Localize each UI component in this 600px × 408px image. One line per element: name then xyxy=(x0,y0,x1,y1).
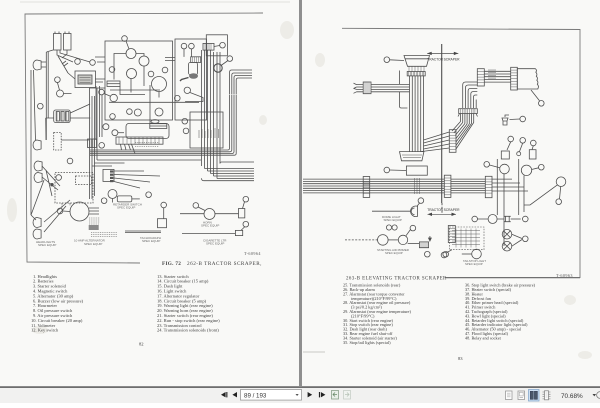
callout 26 xyxy=(384,167,406,173)
svg-text:35. Stop/tail lights (special: 35. Stop/tail lights (special) xyxy=(343,340,391,345)
riser wires to stub wires xyxy=(230,70,252,95)
svg-text:T-60964: T-60964 xyxy=(244,251,261,256)
svg-text:82: 82 xyxy=(139,342,144,347)
caption rule xyxy=(446,277,580,279)
voltmeter gauge cluster xyxy=(54,110,70,123)
callout 7 xyxy=(122,36,128,42)
tail stop lamp xyxy=(462,249,482,259)
main harness bundle vertical xyxy=(410,76,424,152)
callout 10b xyxy=(57,208,70,214)
main terminal trapezoid 25 xyxy=(404,56,430,67)
alternator circle (item 5) xyxy=(70,202,99,221)
callout 43 xyxy=(532,164,545,170)
retarder indicator lamp xyxy=(524,177,566,205)
parts list right column xyxy=(157,274,220,333)
dome light label xyxy=(382,215,402,222)
wires A to B with labels xyxy=(484,70,510,82)
far connector block xyxy=(485,176,492,197)
svg-text:TRACTOR: TRACTOR xyxy=(427,208,443,212)
svg-text:12. Key switch: 12. Key switch xyxy=(31,328,59,333)
parts list col 36-48 xyxy=(465,283,536,341)
next page button xyxy=(308,392,313,397)
hand lever lower xyxy=(184,87,203,101)
callout 5 xyxy=(38,103,44,109)
scan top edge left page xyxy=(20,1,290,3)
callout 41 xyxy=(520,138,526,144)
scraper harness elbow top right xyxy=(463,82,478,108)
scraper connector block A xyxy=(477,69,484,86)
wires cluster mid left xyxy=(46,118,90,140)
headlight (item 1) upper xyxy=(33,60,46,70)
wire with connector X xyxy=(58,56,68,73)
retarder switch box xyxy=(117,196,140,202)
svg-text:SPEC EQUIP: SPEC EQUIP xyxy=(117,206,135,210)
callout 18 xyxy=(243,196,249,208)
batteries (item 2) xyxy=(54,32,91,63)
callout 19 xyxy=(241,221,249,230)
tractor scraper bottom labels xyxy=(427,208,460,216)
fan from comb to connector C xyxy=(452,122,474,150)
headlight bottom pair 2 xyxy=(33,229,41,239)
svg-text:SPEC EQUIP: SPEC EQUIP xyxy=(384,218,402,222)
small circle node xyxy=(517,152,521,156)
svg-text:SPEC EQUIP: SPEC EQUIP xyxy=(142,239,160,243)
svg-text:70.68%: 70.68% xyxy=(561,393,583,400)
junction rect 26 xyxy=(406,166,427,175)
primer label xyxy=(377,248,409,255)
dash light dashed housing xyxy=(54,133,62,151)
feeder hatched connector xyxy=(88,139,97,148)
diagram border frame left page xyxy=(25,13,263,263)
zoom dropdown arrow xyxy=(593,394,597,396)
horizontal bundle A xyxy=(90,95,236,155)
headlight lower pair 2 xyxy=(34,173,42,183)
flood light a xyxy=(502,229,512,239)
fuse block xyxy=(107,81,120,87)
main harness vertical bundle xyxy=(202,50,221,179)
callout 40 xyxy=(508,136,514,142)
wires from far connector xyxy=(492,179,528,191)
previous page button xyxy=(232,392,237,397)
svg-text:SPEC EQUIP: SPEC EQUIP xyxy=(465,262,483,266)
retarder lamp circle xyxy=(108,190,117,203)
callout 9 xyxy=(162,67,168,73)
alternator regulator block xyxy=(89,225,99,230)
wire labels beside bundle xyxy=(199,128,219,138)
right page background xyxy=(301,0,600,386)
buzzer circle mid xyxy=(99,89,118,101)
comb tail wires xyxy=(461,114,474,125)
continuous view icon xyxy=(543,391,551,400)
switch pointer lines xyxy=(507,142,533,152)
instrument panel box xyxy=(105,41,173,120)
parts list left column xyxy=(31,274,84,333)
gauge circle c xyxy=(127,69,137,79)
tractor-scraper divider dashed vertical xyxy=(441,44,443,203)
callout 20 xyxy=(146,192,152,198)
callout 22 xyxy=(101,198,107,204)
parts list col 25-35 xyxy=(343,283,411,345)
callout 46b xyxy=(443,251,449,257)
dashed feed line xyxy=(345,239,378,241)
headlight lower mid xyxy=(33,140,41,150)
junction box with torn edge xyxy=(517,69,538,89)
turn lever ball xyxy=(214,61,228,73)
heater gauge a xyxy=(500,164,510,174)
transmission connector (dark pins) xyxy=(103,169,160,188)
svg-text:24. Transmission solenoids (f: 24. Transmission solenoids (front) xyxy=(157,328,219,333)
callout 25 xyxy=(384,57,404,63)
fit page view icon xyxy=(518,391,525,400)
callout 11 xyxy=(189,43,195,49)
glow plug circle a xyxy=(378,235,399,246)
terminal strip (item 16 area) xyxy=(116,137,163,144)
tachograph line xyxy=(125,231,161,233)
left 4-pin connector xyxy=(363,82,371,94)
wire from headlight down xyxy=(31,70,36,215)
callout 8 xyxy=(148,71,154,77)
fan from main harness to connector C xyxy=(421,132,450,152)
connector C vertical hatched xyxy=(449,130,456,153)
svg-text:263-B ELEVATING TRACTOR SCRAPE: 263-B ELEVATING TRACTOR SCRAPER xyxy=(346,277,447,282)
hourmeter big circle (item 7) xyxy=(152,77,167,92)
svg-text:SPEC EQUIP: SPEC EQUIP xyxy=(201,224,219,228)
svg-text:TRACTOR: TRACTOR xyxy=(427,58,443,62)
svg-text:48. Relay and socket: 48. Relay and socket xyxy=(465,335,502,340)
callout 46 xyxy=(472,216,478,222)
callout 6b xyxy=(110,114,116,120)
callout 13 xyxy=(220,42,226,48)
callout 4 xyxy=(109,67,115,73)
cigarette lighter box 19 xyxy=(235,230,242,235)
callout 42 xyxy=(531,140,537,146)
alternator hatch texture xyxy=(89,218,117,236)
panel internal wires xyxy=(95,54,159,98)
figure caption xyxy=(162,261,262,267)
last page button xyxy=(319,392,326,397)
warning light box 18 xyxy=(239,209,245,218)
callout 48 xyxy=(441,250,452,258)
primer switch box b xyxy=(529,150,536,159)
harness elbows to right bundle xyxy=(202,162,255,181)
bundle connector right xyxy=(444,175,451,197)
callout 39 xyxy=(484,162,500,168)
voltmeter circle xyxy=(57,83,72,98)
magnetic switch (item 4) xyxy=(68,71,96,88)
glow plug circle b xyxy=(398,235,407,244)
crimp dashed rows xyxy=(135,142,159,146)
right figure caption xyxy=(346,277,447,282)
callout 15 xyxy=(182,118,188,124)
callout 47 xyxy=(523,216,529,222)
tractor-scraper top arrows xyxy=(427,52,458,55)
relay and socket grid xyxy=(449,227,484,250)
svg-text:SPEC EQUIP: SPEC EQUIP xyxy=(385,251,403,255)
starting aid primer xyxy=(408,236,432,248)
page divider xyxy=(299,0,302,386)
harness junction leg xyxy=(399,71,407,109)
key switch connector (item 12) xyxy=(184,49,201,62)
battery ground wires xyxy=(46,50,53,140)
starter solenoid wires xyxy=(95,79,105,82)
flasher relay box xyxy=(150,120,167,129)
left page background xyxy=(0,0,300,386)
callout 3 xyxy=(56,175,62,181)
horn circle (item 21) xyxy=(180,209,239,220)
warning light circle a xyxy=(134,109,141,116)
callout 24 xyxy=(147,195,149,197)
callout 11b pointer xyxy=(70,104,90,113)
cigarette lighter line xyxy=(182,233,235,235)
page number input box xyxy=(241,390,302,401)
first page button xyxy=(221,392,227,397)
bundle continues to far connector xyxy=(451,179,485,193)
trapezoid connector 2 xyxy=(400,152,424,161)
callout 29 xyxy=(406,225,416,235)
heater gauge b xyxy=(521,165,531,175)
callout 18a xyxy=(127,109,133,115)
flood light b xyxy=(502,241,512,251)
tail stop label xyxy=(463,259,486,266)
zoom out button edge cut xyxy=(597,392,600,399)
buzzer small circle xyxy=(103,124,109,130)
scraper connector block B xyxy=(511,67,518,90)
svg-text:SCRAPER: SCRAPER xyxy=(444,58,461,62)
svg-text:83: 83 xyxy=(458,356,463,361)
svg-text:FIG. 72: FIG. 72 xyxy=(162,261,181,267)
wires from bottom headlights xyxy=(31,200,70,232)
headlight lower pair 1 xyxy=(34,161,42,171)
tractor scraper top labels xyxy=(427,58,460,62)
callout 1 xyxy=(75,59,81,65)
svg-text:SCRAPER: SCRAPER xyxy=(444,208,461,212)
callout 4b xyxy=(55,77,61,83)
svg-text:T-60963: T-60963 xyxy=(556,273,573,278)
svg-text:SPEC EQUIP: SPEC EQUIP xyxy=(84,242,102,246)
callout 23 xyxy=(161,202,167,219)
dome light lamp xyxy=(372,206,418,217)
connector block 13 xyxy=(203,43,214,50)
heater switch symbol xyxy=(504,216,521,221)
key panel sub box xyxy=(206,35,227,56)
svg-text:SPEC EQUIP: SPEC EQUIP xyxy=(38,243,56,247)
callout 38 xyxy=(510,116,526,122)
callout 16 xyxy=(99,143,105,149)
headlight bottom pair 1 xyxy=(33,218,41,228)
4 wires to harness xyxy=(354,83,410,93)
flood light pointer xyxy=(512,234,528,246)
strip drop wires xyxy=(121,144,136,153)
oil pressure switch circle xyxy=(112,130,124,136)
tachograph box xyxy=(158,219,167,228)
panel housing rounded box xyxy=(126,123,169,138)
callout 28 xyxy=(417,198,424,207)
long horizontal bundle lower xyxy=(303,178,444,194)
callout 10 xyxy=(181,43,187,49)
callout 14 xyxy=(175,95,181,101)
comb connector bottom of scraper bundle xyxy=(458,109,478,117)
callout 1b xyxy=(67,158,73,164)
svg-text:SPEC EQUIP: SPEC EQUIP xyxy=(206,242,224,246)
next view icon disabled xyxy=(344,391,351,400)
gauge circle a xyxy=(126,49,136,59)
callouts 30 31 xyxy=(386,225,397,230)
svg-text:262-B TRACTOR SCRAPER,: 262-B TRACTOR SCRAPER, xyxy=(187,261,262,267)
single page view icon xyxy=(506,391,513,400)
callout 34 xyxy=(425,251,431,257)
previous view icon xyxy=(332,391,339,400)
flasher dashed box xyxy=(55,173,93,211)
gauge circle b xyxy=(139,56,149,66)
two page view icon active xyxy=(529,390,540,402)
wires to lower headlights xyxy=(31,166,60,215)
callout 6 lever xyxy=(227,56,233,62)
primer switch box a xyxy=(501,151,509,159)
alternator 50amp circle xyxy=(478,215,505,224)
key switch body xyxy=(180,62,198,81)
junction dot xyxy=(50,183,53,186)
diagram border frame right page xyxy=(342,28,580,277)
key switch panel box xyxy=(175,39,207,120)
heater drop wires xyxy=(497,159,524,246)
right edge connector xyxy=(448,226,455,243)
scan artifact line right page bottom xyxy=(303,351,325,353)
callout 2 xyxy=(90,60,96,66)
cross ties xyxy=(92,160,201,166)
left vertical feeder bundle xyxy=(90,88,106,199)
ether valve component xyxy=(502,115,509,125)
svg-text:89 / 193: 89 / 193 xyxy=(244,392,267,399)
warning light circle b xyxy=(155,108,163,116)
connector strip under trapezoid xyxy=(407,66,425,76)
pointer from box to callout 37 xyxy=(531,90,544,106)
extra mesh wires upper mid xyxy=(96,58,199,141)
harness label box xyxy=(190,112,223,148)
callout 17 xyxy=(183,128,189,134)
callout 21 xyxy=(193,203,205,211)
callout 45 xyxy=(556,187,562,205)
bundle connector left xyxy=(363,177,370,198)
